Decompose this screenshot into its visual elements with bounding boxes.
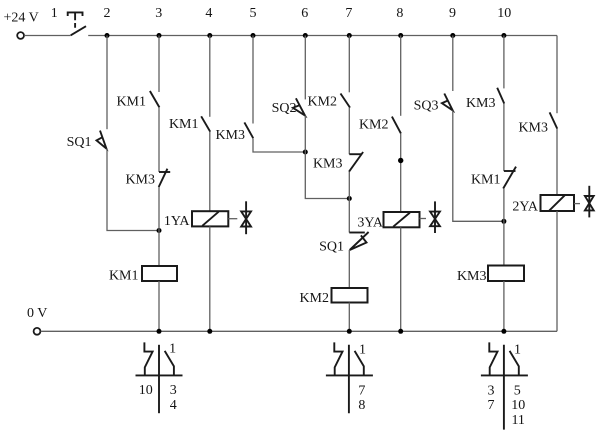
0V bottom rail: [41, 330, 557, 332]
svg-text:KM2: KM2: [299, 291, 329, 306]
contact KM3 (NO) column 11: [550, 112, 558, 128]
svg-text:1: 1: [514, 343, 521, 358]
wire stub 3YA to valve: [420, 218, 427, 220]
contact KM1 (NO) column 3: [150, 91, 160, 107]
limit switch SQ2 (NO) column 6: [293, 98, 305, 115]
wire column 5 to node 6: [253, 138, 305, 152]
svg-text:3: 3: [488, 383, 495, 398]
svg-text:3: 3: [170, 383, 177, 398]
wire column 8 middle: [400, 133, 402, 212]
junction dot bottom node 7: [347, 329, 352, 334]
svg-text:0 V: 0 V: [27, 306, 47, 321]
junction dot node 9/10: [501, 219, 506, 224]
svg-text:8: 8: [396, 6, 403, 21]
svg-text:SQ1: SQ1: [319, 240, 344, 255]
wire column 7 upper: [348, 36, 350, 93]
svg-text:7: 7: [488, 398, 495, 413]
svg-text:+24 V: +24 V: [4, 11, 39, 26]
svg-text:KM3: KM3: [466, 96, 496, 111]
wire column 11 lower: [556, 211, 558, 331]
wire stub 2YA to valve: [574, 203, 580, 205]
svg-text:6: 6: [301, 6, 308, 21]
svg-text:11: 11: [511, 413, 524, 428]
solenoid 2YA: [541, 195, 575, 211]
svg-text:KM1: KM1: [116, 95, 146, 110]
svg-text:KM3: KM3: [518, 121, 548, 136]
svg-text:KM3: KM3: [125, 173, 155, 188]
pushbutton SB (rung 1): [68, 12, 86, 35]
svg-text:7: 7: [345, 6, 352, 21]
svg-text:3YA: 3YA: [357, 216, 384, 231]
svg-text:5: 5: [514, 383, 521, 398]
wire stub 1YA to valve: [228, 218, 237, 220]
coil KM3: [488, 266, 524, 282]
contact KM1 (NC) column 10: [503, 167, 516, 189]
valve symbol 3YA: [430, 201, 440, 233]
svg-text:10: 10: [511, 398, 525, 413]
wire column 9 upper: [452, 36, 454, 92]
contact KM2 (NO) column 8: [392, 117, 401, 134]
+24V supply terminal: [17, 32, 24, 39]
junction dot bottom node 4: [207, 329, 212, 334]
svg-text:KM3: KM3: [457, 269, 487, 284]
junction dot rail node 2: [105, 33, 110, 38]
junction dot node 2/3: [157, 228, 162, 233]
wire column 2 lower: [107, 149, 159, 231]
contact KM3 (NO) column 5: [244, 122, 253, 138]
wire column 5 upper: [252, 36, 254, 124]
contact cross-reference KM1: [136, 342, 183, 413]
wire column 3 to 0V rail: [158, 281, 160, 331]
svg-text:4: 4: [205, 6, 212, 21]
+24V top rail: [88, 35, 557, 37]
wire column 11 from rail: [556, 36, 558, 114]
svg-text:KM3: KM3: [313, 157, 343, 172]
svg-text:KM2: KM2: [307, 95, 337, 110]
wire column 3 lower: [158, 187, 160, 266]
svg-text:10: 10: [139, 383, 153, 398]
svg-text:4: 4: [170, 398, 177, 413]
wire column 10 upper middle: [503, 104, 505, 172]
wire from +24V terminal to pushbutton: [24, 35, 70, 37]
contact cross-reference KM3: [481, 342, 528, 429]
svg-text:SQ2: SQ2: [272, 101, 297, 116]
wire column 3 upper: [158, 36, 160, 93]
contact KM1 (NO) column 4: [201, 116, 210, 131]
wire column 8 upper: [400, 36, 402, 116]
svg-text:1: 1: [51, 6, 58, 21]
svg-text:1: 1: [359, 343, 366, 358]
wire column 7 lower: [348, 250, 350, 288]
svg-text:1YA: 1YA: [164, 214, 191, 229]
junction dot rail node 8: [398, 33, 403, 38]
contact KM3 (NC) column 7: [349, 152, 363, 172]
wire column 7 upper middle: [348, 108, 350, 155]
wire column 10 to 0V rail: [503, 281, 505, 331]
junction dot rail node 5: [251, 33, 256, 38]
solenoid 1YA: [192, 211, 228, 226]
junction dot bottom node 10: [501, 329, 506, 334]
wire column 11 middle: [556, 129, 558, 195]
wire column 6 upper: [304, 36, 306, 100]
junction dot column 8: [398, 158, 403, 163]
wire column 10 lower: [503, 189, 505, 266]
wire column 9 lower: [453, 111, 504, 222]
svg-text:1: 1: [169, 342, 176, 357]
svg-text:7: 7: [358, 383, 365, 398]
junction dot node 6/7: [347, 196, 352, 201]
solenoid 3YA: [384, 212, 420, 227]
wire column 4 upper: [209, 36, 211, 117]
svg-text:2: 2: [104, 6, 111, 21]
wire column 7 to 0V rail: [348, 303, 350, 332]
coil KM2: [332, 288, 368, 303]
junction dot rail node 7: [347, 33, 352, 38]
svg-text:KM1: KM1: [169, 117, 199, 132]
junction dot bottom node 8: [398, 329, 403, 334]
junction dot rail node 3: [157, 33, 162, 38]
wire column 6 lower: [305, 116, 349, 199]
contact KM3 (NO) column 10: [497, 88, 504, 104]
contact KM2 (NO) column 7: [341, 94, 351, 108]
junction dot rail node 6: [303, 33, 308, 38]
svg-text:KM3: KM3: [215, 128, 245, 143]
svg-text:KM1: KM1: [471, 173, 501, 188]
wire column 2 upper: [106, 36, 108, 130]
wire column 4 lower: [209, 226, 211, 331]
limit switch SQ1 (NC) column 7: [349, 232, 368, 250]
svg-text:SQ1: SQ1: [67, 135, 92, 150]
wire column 3 middle: [158, 107, 160, 172]
svg-text:KM2: KM2: [359, 118, 389, 133]
valve symbol 2YA: [585, 186, 594, 218]
junction dot bottom node 3: [157, 329, 162, 334]
wire column 7 middle: [348, 172, 350, 233]
svg-text:10: 10: [497, 6, 511, 21]
wire column 8 lower: [400, 227, 402, 331]
0V supply terminal: [34, 328, 41, 335]
coil KM1: [142, 266, 177, 281]
svg-text:9: 9: [449, 6, 456, 21]
svg-text:5: 5: [250, 6, 257, 21]
wire column 10 upper: [503, 36, 505, 89]
svg-text:2YA: 2YA: [512, 200, 539, 215]
junction dot rail node 10: [501, 33, 506, 38]
wire column 4 middle: [209, 132, 211, 212]
limit switch SQ1 (NO) column 2: [97, 131, 107, 149]
valve symbol 1YA: [241, 201, 251, 234]
junction dot node 5/6: [303, 150, 308, 155]
svg-text:SQ3: SQ3: [414, 99, 439, 114]
svg-text:3: 3: [155, 6, 162, 21]
contact KM3 (NC) column 3: [159, 169, 171, 187]
junction dot rail node 9: [450, 33, 455, 38]
svg-text:KM1: KM1: [109, 269, 139, 284]
junction dot rail node 4: [207, 33, 212, 38]
limit switch SQ3 (NO) column 9: [442, 94, 453, 111]
contact cross-reference KM2: [326, 342, 373, 413]
svg-text:8: 8: [358, 398, 365, 413]
